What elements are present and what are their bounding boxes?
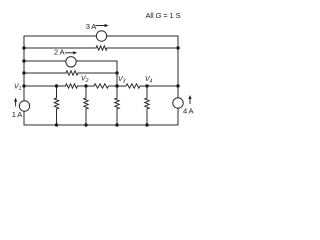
junction node row4 right end [115,71,118,74]
svg-text:V3: V3 [118,76,126,85]
wire row3 right [76,60,117,62]
wire right below source [177,108,179,125]
wire node row V3 segment [109,85,127,87]
arrow for I4 [189,98,191,104]
junction node V2 [84,84,87,87]
junction node V1 [22,84,25,87]
wire node row V2 segment [78,85,95,87]
current source I1 circle [19,101,29,111]
wire shunt branch 2 upper [85,86,87,98]
wire row2 right [107,47,178,49]
resistor shunt branch 1 [54,98,58,109]
current source I3 circle [96,31,106,41]
current source I4 circle [173,98,183,108]
resistor node row R c [126,84,140,88]
wire shunt branch 2 lower [85,109,87,125]
svg-text:1 A: 1 A [12,110,24,119]
svg-text:V4: V4 [145,76,153,85]
wire row2 left [24,47,96,49]
wire top right segment [107,35,178,37]
resistor shunt branch 3 [115,98,119,109]
current source I2 circle [66,57,76,67]
arrowhead I1 [14,98,17,102]
wire shunt branch 1 lower [56,109,58,125]
arrowhead I4 [188,95,191,99]
junction bottom branch4 [145,123,148,126]
junction node row right vertical [176,84,179,87]
resistor node row R a [66,84,78,88]
junction node row2 left [22,46,25,49]
wire shunt branch 3 upper [116,86,118,98]
junction node row4 left [22,71,25,74]
wire bottom rail [24,124,178,126]
resistor shunt branch 2 [84,98,88,109]
arrowhead I2 [73,51,77,54]
svg-text:4 A: 4 A [183,107,195,116]
wire right vertical [177,36,179,98]
wire top left segment [24,35,97,37]
resistor row4 [66,71,78,75]
wire row3 drop to node V3 [116,61,118,86]
junction node V4 [145,84,148,87]
wire shunt branch 4 upper [146,86,148,98]
junction bottom branch3 [115,123,118,126]
wire row3 left [24,60,66,62]
arrow for I1 [15,100,17,106]
wire left below source [23,111,25,125]
arrow for I2 [66,52,75,54]
resistor shunt branch 4 [145,98,149,109]
junction bottom branch1 [55,123,58,126]
wire left vertical [23,36,25,101]
svg-text:V2: V2 [81,76,89,85]
svg-text:V1: V1 [14,84,22,93]
arrowhead I3 [105,24,109,27]
wire shunt branch 3 lower [116,109,118,125]
junction node branch1 top [55,84,58,87]
junction node V3 [115,84,118,87]
wire row4 right [78,72,117,74]
wire node row V1 segment [24,85,66,87]
junction node row3 left [22,59,25,62]
wire row4 left [24,72,66,74]
wire shunt branch 1 upper [56,86,58,98]
svg-text:2 A: 2 A [54,48,66,57]
resistor row2 [96,46,107,50]
junction bottom branch2 [84,123,87,126]
resistor node row R b [94,84,109,88]
svg-text:All G = 1 S: All G = 1 S [146,11,181,20]
wire shunt branch 4 lower [146,109,148,125]
wire node row V4 segment [140,85,178,87]
arrow for I3 [96,25,106,27]
junction node row2 right [176,46,179,49]
svg-text:3 A: 3 A [86,22,98,31]
